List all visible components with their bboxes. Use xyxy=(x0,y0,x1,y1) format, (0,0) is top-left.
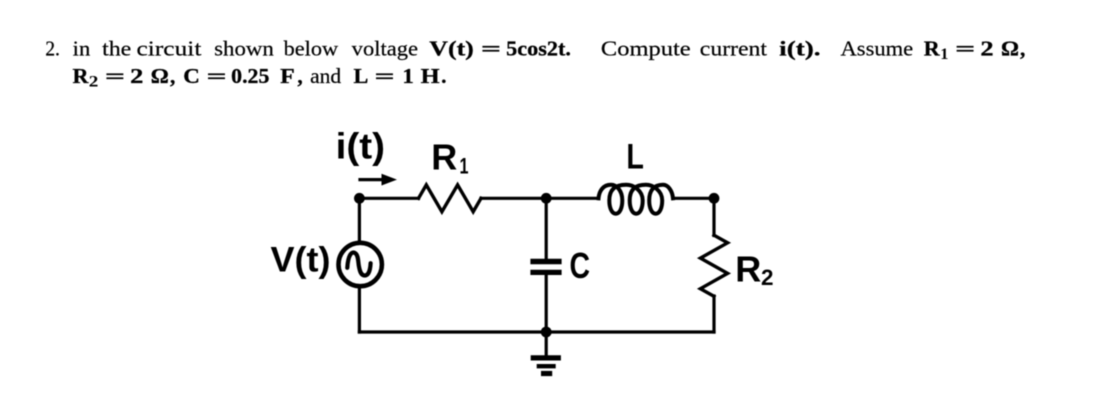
svg-text:Assume: Assume xyxy=(841,36,914,60)
svg-text:i(t).: i(t). xyxy=(779,36,820,60)
svg-text:voltage: voltage xyxy=(352,36,418,60)
svg-text:H: H xyxy=(421,64,440,88)
svg-text:2.: 2. xyxy=(45,36,60,60)
svg-text:F: F xyxy=(280,64,295,88)
svg-text:L: L xyxy=(626,137,644,176)
svg-text:=: = xyxy=(481,36,501,60)
svg-text:C: C xyxy=(570,245,591,286)
svg-text:i(t): i(t) xyxy=(336,126,386,167)
svg-text:current: current xyxy=(700,36,767,60)
svg-text:circuit: circuit xyxy=(137,36,202,60)
svg-text:,: , xyxy=(1020,36,1025,60)
svg-text:=: = xyxy=(207,64,227,88)
svg-text:L: L xyxy=(354,64,369,88)
svg-text:2: 2 xyxy=(89,74,99,91)
svg-text:Ω: Ω xyxy=(1001,36,1019,60)
svg-text:in: in xyxy=(73,36,91,60)
svg-text:1: 1 xyxy=(940,46,948,63)
svg-text:=: = xyxy=(955,36,975,60)
svg-text:R: R xyxy=(73,64,89,88)
svg-text:0.25: 0.25 xyxy=(231,64,269,88)
svg-text:C: C xyxy=(183,64,200,88)
svg-text:1: 1 xyxy=(402,64,413,88)
svg-text:.: . xyxy=(441,64,446,88)
svg-text:,: , xyxy=(170,64,175,88)
svg-text:5cos2t.: 5cos2t. xyxy=(506,36,571,60)
svg-text:=: = xyxy=(375,64,395,88)
svg-text:Compute: Compute xyxy=(601,36,691,60)
svg-text:Ω: Ω xyxy=(151,64,169,88)
svg-text:1: 1 xyxy=(460,153,469,178)
svg-text:=: = xyxy=(105,64,125,88)
svg-text:below: below xyxy=(284,36,339,60)
svg-text:the: the xyxy=(102,36,131,60)
svg-text:V(t): V(t) xyxy=(271,239,331,279)
svg-text:,: , xyxy=(297,64,302,88)
svg-text:2: 2 xyxy=(980,36,993,60)
svg-text:shown: shown xyxy=(214,36,274,60)
svg-text:R: R xyxy=(431,137,457,178)
svg-text:R: R xyxy=(924,36,940,60)
svg-text:V(t): V(t) xyxy=(429,36,474,60)
svg-text:2: 2 xyxy=(130,64,143,88)
svg-text:R: R xyxy=(735,248,761,289)
svg-text:and: and xyxy=(310,64,341,88)
svg-text:2: 2 xyxy=(761,265,774,290)
